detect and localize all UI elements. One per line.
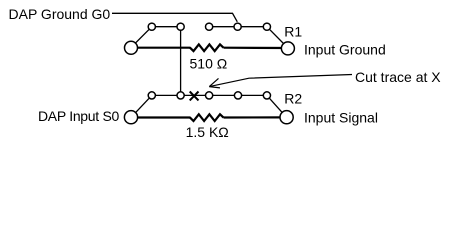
wire: bottom thick trace left segment [131, 116, 191, 118]
wire: pad B4 to pad B5 [238, 94, 267, 96]
svg-text:R2: R2 [284, 91, 302, 107]
pad T4 [234, 23, 241, 30]
wire: diagonal pad B5 to BR big pad [267, 95, 287, 117]
pad T2 [177, 23, 184, 30]
resistor R2 zigzag 1.5 Kohm [190, 114, 224, 121]
wire: diagonal pad T5 to TR big pad [267, 27, 288, 48]
wire: pad T1 to pad T2 [152, 26, 181, 28]
wire: top thick trace right segment [224, 47, 288, 49]
wire: pad T3 to pad T4 [209, 26, 238, 28]
wire: leader from DAP Ground G0 label to pad T4 [112, 13, 237, 21]
svg-text:DAP Ground G0: DAP Ground G0 [9, 6, 111, 22]
pad B2 [177, 92, 184, 99]
svg-text:R1: R1 [284, 24, 302, 40]
resistor R1 zigzag 510 ohm [190, 44, 224, 51]
annotation leader arrow to X [209, 75, 352, 87]
wire: bottom thick trace right segment [224, 116, 287, 118]
pad B1 [148, 92, 155, 99]
wire: diagonal BL big pad to pad B1 [131, 95, 152, 117]
svg-text:510 Ω: 510 Ω [190, 56, 228, 72]
pad T3 [206, 23, 213, 30]
wire: pad B2 to pad B3 (trace to cut) [181, 94, 210, 96]
wire: top thick trace left segment [131, 47, 191, 49]
pad B5 [263, 92, 270, 99]
pad T5 [263, 23, 270, 30]
pad BL (big, DAP Input S0) [124, 111, 137, 124]
pad TR (big, Input Ground right) [281, 42, 294, 55]
wire: vertical jumper pad T2 to pad B2 [180, 27, 182, 96]
svg-text:Input Signal: Input Signal [304, 110, 378, 126]
pad TL (big, Input Ground left) [125, 41, 138, 54]
pad B3 [206, 92, 213, 99]
svg-text:DAP Input S0: DAP Input S0 [38, 108, 119, 124]
pad T1 [148, 23, 155, 30]
svg-text:1.5 KΩ: 1.5 KΩ [186, 124, 229, 140]
wire: pad B3 to pad B4 [209, 94, 238, 96]
pad BR (big, Input Signal) [280, 111, 293, 124]
wire: pad B1 to pad B2 [152, 94, 181, 96]
wire: diagonal TL big pad to pad T1 [131, 27, 152, 48]
wire: pad T4 to pad T5 [238, 26, 267, 28]
pad B4 [234, 92, 241, 99]
X cut marker [190, 92, 199, 101]
svg-text:Cut trace at X: Cut trace at X [355, 69, 441, 85]
svg-text:Input Ground: Input Ground [304, 42, 386, 58]
